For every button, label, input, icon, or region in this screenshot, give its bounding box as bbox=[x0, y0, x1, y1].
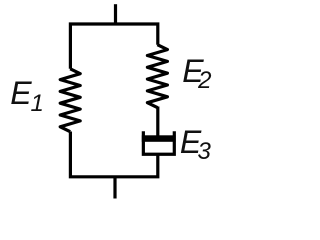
wire: rod from spring E2 into dashpot piston bbox=[156, 107, 159, 141]
wire: left lead, top wire, right lead bbox=[70, 24, 157, 69]
wire: left bottom lead, bottom wire, right riser to dashpot bbox=[70, 132, 157, 177]
spring E1 bbox=[60, 69, 80, 132]
dashpot E3 piston bbox=[142, 135, 176, 142]
label E2 bbox=[182, 55, 203, 87]
label E1 bbox=[10, 77, 31, 109]
bottom terminal lead bbox=[113, 177, 116, 199]
label E3 bbox=[180, 126, 201, 158]
dashpot E3 cylinder bbox=[143, 131, 174, 154]
spring E2 bbox=[147, 45, 167, 108]
top terminal lead bbox=[114, 4, 117, 24]
